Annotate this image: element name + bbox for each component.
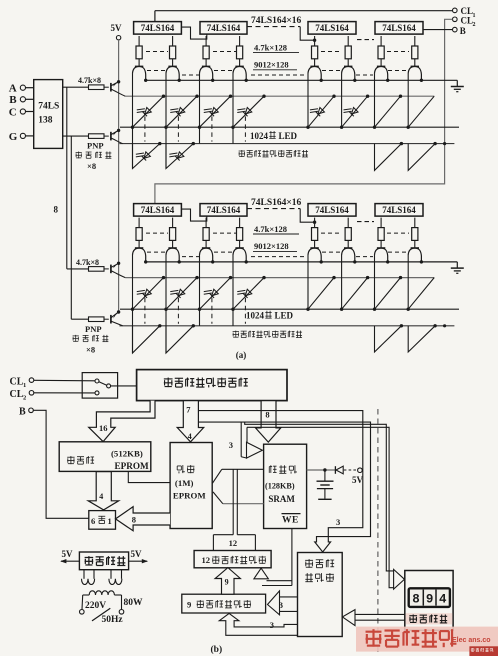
transistor 9012 Q5 (dome) [308,66,321,79]
svg-text:80W: 80W [124,598,144,608]
watermark latin [452,637,491,644]
wire sram vcc [307,468,335,471]
LED D4 upper [237,108,252,117]
svg-text:LED: LED [275,311,294,321]
wire LED column 1 [132,73,134,168]
wire LED diagonal upper 4b [231,276,265,311]
svg-text:4: 4 [439,593,447,607]
dashed fold line [377,409,379,653]
transistor PNP darlington 2 [111,129,123,144]
label 9-bit data latch [187,599,251,609]
svg-text:B: B [19,407,26,418]
shift register U3b 74LS164 [308,204,356,217]
svg-text:LED: LED [279,131,298,141]
transformer T1 secondary [82,570,122,585]
dashed repeat mark dome row [322,70,342,72]
transformer T1 primary [80,591,124,614]
resistor 4.7k column 5b [312,218,318,248]
resistor 4.7k column 5 [312,36,318,66]
transistor 9012 Q4b (dome) [233,248,246,261]
wire LED diagonal upper 4 [231,95,265,129]
svg-text:4: 4 [99,492,103,501]
transistor PNP darlington 1b [111,262,125,278]
junction dot row3b crossing [443,324,446,327]
switch S1 contacts [95,379,111,395]
wire row line 2 [120,126,459,128]
terminal C [20,109,33,114]
dashed repeat mark dome gap [356,74,373,76]
dashed repeat mark resistor row [213,51,236,53]
svg-text:16: 16 [99,423,108,433]
wire B to mux [33,410,89,518]
LED D3b upper [204,289,219,298]
bus arrow 3 to sequence SRAM left [229,422,263,458]
dashed repeat mark dome row [214,70,235,72]
sequence SRAM box [264,444,307,528]
terminal 5V [116,36,120,40]
resistor 4.7k column 3 [203,36,209,66]
svg-text:3: 3 [279,600,283,610]
svg-text:74LS164: 74LS164 [315,205,349,215]
resistor 4.7k column 7 [378,36,384,66]
svg-text:12: 12 [202,555,211,565]
svg-text:1: 1 [23,382,26,389]
label darlingtonb [73,335,109,342]
label 5V top [111,23,123,33]
LED D1b upper [137,289,152,298]
LED D5 upper [310,108,325,117]
svg-text:74LS164: 74LS164 [207,23,241,33]
dashed repeat mark dome row [147,70,167,72]
label (512KB) [111,448,143,458]
svg-text:74LS164: 74LS164 [141,205,175,215]
dashed column repeat 1b [144,298,146,324]
resistor 4.7k column 8b [412,218,418,248]
LED D6 upper [344,108,359,117]
shift register U4 74LS164 [375,22,423,34]
label darlington [76,151,112,158]
display bezel [409,588,450,607]
wire LED column 5 [307,73,309,127]
bus arrow sram to counter [254,529,292,586]
transistor 9012 Q5b (dome) [308,248,321,261]
wire emitter busb [146,261,458,263]
terminal CL1 [453,8,458,13]
wire 5V rail [118,40,120,312]
wire 8-line bus B [71,136,88,319]
label 8 bus [54,205,59,215]
label CL2 [461,16,476,29]
resistor 4.7k column 7b [378,218,384,248]
wire clock line CL1 to panel 1 [155,11,453,22]
shift register U3 74LS164 [308,22,356,34]
wire data B to U4 [423,29,452,31]
counter box 12-bit [194,551,271,568]
svg-text:4.7k×8: 4.7k×8 [76,258,99,267]
bus arrow 7/4 to font EPROM [177,401,204,442]
label x8b [86,345,95,355]
label x8 [87,161,96,171]
bus arrow 8 font to mux [116,507,171,531]
dashed repeat mark dome row [147,251,167,253]
label (a) [236,350,247,360]
wire lower diagonal 2b [166,324,195,353]
LED D4b upper [237,289,252,298]
svg-text:5V: 5V [62,549,74,559]
wire LED diagonal upper 8b [407,278,435,311]
svg-text:8: 8 [412,593,420,607]
wire LED column 4 [232,73,234,144]
label PNP [87,141,104,151]
wire row line 2b [120,308,459,310]
transistor 9012 Q1 (dome) [133,66,146,79]
groundb [451,262,464,273]
dashed column repeat 4b [244,298,246,324]
keyboard label tint [406,613,453,624]
transistor PNP darlington 1 [111,80,125,96]
wire lower zigzag 7 [375,142,404,170]
resistor 4.7k column 6b [345,218,351,248]
terminal B top [453,27,458,32]
slash 220V-50Hz [92,608,110,621]
wire LED diagonal upper 3 [198,95,232,129]
svg-text:8: 8 [54,205,59,215]
terminal 5V sram [358,468,363,473]
LED D1L lower [136,152,151,161]
label font library [177,465,194,473]
shift register U1 74LS164 [134,22,182,34]
transistor 9012 Q1b (dome) [133,248,146,261]
svg-text:74LS164: 74LS164 [315,23,349,33]
wire U3-U4 dashed link [357,39,374,41]
label 9012x128b [253,241,297,251]
bus arrow keyboard to zone [342,610,404,626]
svg-text:A: A [9,83,17,95]
label SRAM [268,494,295,504]
wire U1b-U2b serial link [181,209,206,221]
label clock and address generator [164,378,248,388]
dashed repeat mark resistor row [213,232,236,234]
wire diode to 5V dashed [344,469,357,471]
wire emitter bus [146,79,458,81]
label 4.7kx8 [78,76,101,85]
label 4.7kx128b [253,224,299,234]
resistor 4.7k column 2 [170,36,176,66]
wire LED column 7 [374,73,376,127]
wire LED diagonal upper 1 [131,95,165,129]
wire LED column 5b [307,255,309,310]
wire row line 3b [119,325,454,327]
resistor 4.7kx8 row driver 1b [89,267,109,272]
bus wire zone to latch bottom (hollow) [219,613,300,635]
wire LED column 7b [374,255,376,310]
label 50Hz [102,615,124,625]
dashed column repeat 3 [211,116,213,141]
wire LED diagonal upper 2b [164,276,198,311]
label A [9,83,17,95]
LED D2L lower [169,152,184,161]
resistor 4.7kx8 row driver 2 [89,134,109,139]
terminal CL2 [453,17,458,22]
label 74LS164x16b [251,198,302,208]
clock and address generator box [137,370,287,401]
dashed repeat mark dome gap [251,74,306,76]
dashed column repeat 2b [177,298,179,324]
dashed repeat mark resistor row [387,232,409,234]
label 5V sram [352,475,364,485]
svg-text:9012×128: 9012×128 [254,241,289,251]
dashed column repeat 2 [177,116,179,141]
svg-text:12: 12 [229,538,238,548]
terminal B [20,97,33,102]
label regulated power [85,556,126,565]
shift register U4b 74LS164 [375,204,423,217]
LED D2 upper [170,108,185,117]
wire effects to font eprom [128,471,170,482]
label 1024 LEDb [246,311,294,321]
label 6-sel-1 [91,516,112,526]
transistor 9012 Q2 (dome) [166,66,179,79]
wire LED diagonal upper 6 [340,95,369,129]
svg-text:G: G [9,131,18,143]
mux 6-to-1 box [89,511,116,530]
zone code generator box [298,553,343,637]
dashed repeat mark resistor row [146,232,168,234]
resistor 4.7k column 4b [237,218,243,248]
svg-text:CL: CL [10,389,24,400]
terminal G [20,133,33,138]
wire lower diagonal 2 [166,142,195,169]
dashed repeat mark dome gap [251,256,306,258]
label zone code [305,559,334,568]
svg-text:4.7k×128: 4.7k×128 [254,42,287,52]
svg-text:50Hz: 50Hz [102,615,124,625]
wire row line 1b [125,277,434,279]
terminal B bottom [19,407,33,418]
transistor 9012 Q4 (dome) [233,66,246,79]
bus wire to keyboard (hollow) [245,422,405,589]
wire 5V left arrow [60,559,79,563]
ground [451,80,464,91]
label 12-bit up-down counter [202,555,266,565]
svg-text:(b): (b) [211,644,223,655]
wire CL2 to switch [34,392,95,394]
label generator chars [305,573,334,582]
transistor 9012 Q6 (dome) [342,66,355,79]
wire switch to clock generator [111,385,137,387]
svg-text:(a): (a) [236,350,247,360]
wire LED diagonal upper 1b [131,276,165,311]
svg-text:3: 3 [229,440,233,450]
svg-text:74LS164: 74LS164 [207,205,241,215]
label EPROM 1M [173,491,206,501]
font EPROM box [170,443,212,529]
svg-text:×8: ×8 [87,161,96,171]
switch S1 box [82,373,117,399]
label programming keyboard [409,614,447,622]
wire LED column 3b [199,255,201,326]
svg-text:2: 2 [473,22,476,28]
svg-text:CL: CL [10,376,24,387]
svg-text:×8: ×8 [86,345,95,355]
wire lower diagonal 1 [133,142,162,169]
wire LED diagonal upper 3b [198,276,232,311]
resistor 4.7k column 3b [203,218,209,248]
keyboard box [405,571,453,631]
svg-text:5V: 5V [111,23,123,33]
wire LED column 6 [341,73,343,127]
dashed column repeat 3b [211,298,213,324]
display digits 894 [412,593,447,607]
label G [9,131,18,143]
wire lower zigzag 8 [408,142,437,170]
svg-text:74LS164×16: 74LS164×16 [251,198,302,208]
diode D1 [335,466,343,474]
label 4.7kx128 [253,42,299,52]
label 4.7kx8 b [76,258,99,267]
svg-text:EPROM: EPROM [115,461,150,471]
wire lower zigzag 8b [408,324,437,352]
transistor 9012 Q3b (dome) [200,248,213,261]
svg-text:220V: 220V [85,601,106,611]
bus wire to zone-code generator (hollow) [198,411,370,552]
svg-text:74LS164×16: 74LS164×16 [251,16,302,26]
label 74LS164x16 [251,16,302,26]
resistor 4.7kx8 row driver 2b [89,317,109,322]
wire LED diagonal upper 2 [164,95,198,129]
label 1024 LED [250,131,298,141]
wire LED diagonal upper 5b [306,276,335,311]
label (128KB) [265,482,295,491]
label EPROM 512 [115,461,150,471]
bus arrow 3 zone to latch [268,591,298,615]
terminal CL2 bottom [10,389,34,402]
capacitor battery C1 [317,470,334,499]
svg-text:C: C [9,106,17,118]
svg-text:2: 2 [23,395,26,402]
label 5V right [131,549,143,559]
wire CL1 to switch [34,379,95,382]
terminal CL1 bottom [10,376,34,389]
svg-text:74LS164: 74LS164 [382,23,416,33]
label 80W [124,598,144,608]
dashed column repeat 4 [244,116,246,141]
wire LED column 8 [407,73,409,127]
wire link font-sram lower (gray) [213,492,264,504]
dashed repeat mark dome row [322,251,342,253]
dashed repeat mark dome row [388,70,408,72]
wire U2b-U3b serial link (dashed continuation) [247,209,316,224]
transistor 9012 Q3 (dome) [200,66,213,79]
shift register U2 74LS164 [200,22,247,34]
effects EPROM box [59,442,151,472]
transistor 9012 Q7b (dome) [375,248,388,261]
label B [9,94,17,106]
wire LED diagonal upper 6b [340,276,369,311]
wire 5V right arrow [129,559,148,563]
svg-text:B: B [9,94,17,106]
dashed repeat mark dome gap [182,256,199,258]
terminal A [20,85,33,90]
resistor 4.7k column 6 [345,36,351,66]
svg-text:Elec ans.co: Elec ans.co [452,637,491,644]
svg-text:9: 9 [225,578,229,587]
wire U3b-U4b dashed link [357,221,374,223]
shift register U1b 74LS164 [134,204,182,217]
label effects library [67,456,94,464]
dashed repeat mark dome gap [356,256,373,258]
bus arrow 9 latch to counter [215,568,240,595]
svg-text:(1M): (1M) [175,478,194,488]
wire LED column 3 [199,73,201,144]
wire link font-sram upper [212,469,263,483]
wire row line 1 [125,95,434,97]
label 9012x128 [253,60,297,70]
wire 138 output row2 [63,135,89,137]
transistor PNP darlington 2b [111,310,123,326]
transistor 9012 Q8b (dome) [408,248,421,261]
wire LED diagonal upper 7 [373,95,402,129]
svg-text:74LS164: 74LS164 [382,205,416,215]
wire lower zigzag 7b [375,324,404,352]
resistor 4.7k column 8 [412,36,418,66]
transistor 9012 Q7 (dome) [375,66,388,79]
svg-text:3: 3 [336,517,340,527]
svg-text:5V: 5V [352,475,364,485]
wire LED column 1b [132,255,134,353]
svg-text:B: B [460,26,466,36]
label B top [460,26,466,36]
resistor 4.7k column 4 [237,36,243,66]
dashed repeat mark resistor row [321,51,342,53]
label 220V [85,601,106,611]
watermark corner block [469,646,498,656]
wire U1-U2 serial link [181,27,206,39]
wire U2-U3 serial link (dashed continuation) [247,27,316,42]
watermark text big [366,629,457,647]
bus arrow 16 to effects EPROM [89,401,155,442]
label C [9,106,17,118]
svg-text:74LS164: 74LS164 [141,23,175,33]
wire LED column 8b [407,255,409,310]
label row-column parallel noteb [233,331,302,338]
label row-column parallel note [239,150,308,157]
regulated supply box [79,552,128,570]
junction dot row3 x CL2 [443,142,446,145]
resistor 4.7k column 2b [170,218,176,248]
label (1M) [175,478,194,488]
svg-text:4: 4 [188,432,192,441]
transistor 9012 Q6b (dome) [342,248,355,261]
wire LED diagonal upper 8 [407,96,435,129]
transistor 9012 Q2b (dome) [166,248,179,261]
resistor 4.7kx8 row driver 1 [89,85,109,90]
resistor 4.7k column 1b [136,218,142,248]
dashed repeat mark resistor row [321,232,342,234]
label 5V left [62,549,74,559]
svg-text:(512KB): (512KB) [111,448,143,458]
dashed repeat mark dome gap [182,74,199,76]
latch box 9-bit [182,594,266,613]
svg-text:138: 138 [38,116,53,126]
dashed repeat mark resistor row [146,51,168,53]
LED D3 upper [204,108,219,117]
wire 138 output row1 [63,86,89,88]
svg-text:1024: 1024 [246,311,265,321]
resistor 4.7k column 1 [136,36,142,66]
shift register U2b 74LS164 [200,204,247,217]
transistor 9012 Q8 (dome) [408,66,421,79]
